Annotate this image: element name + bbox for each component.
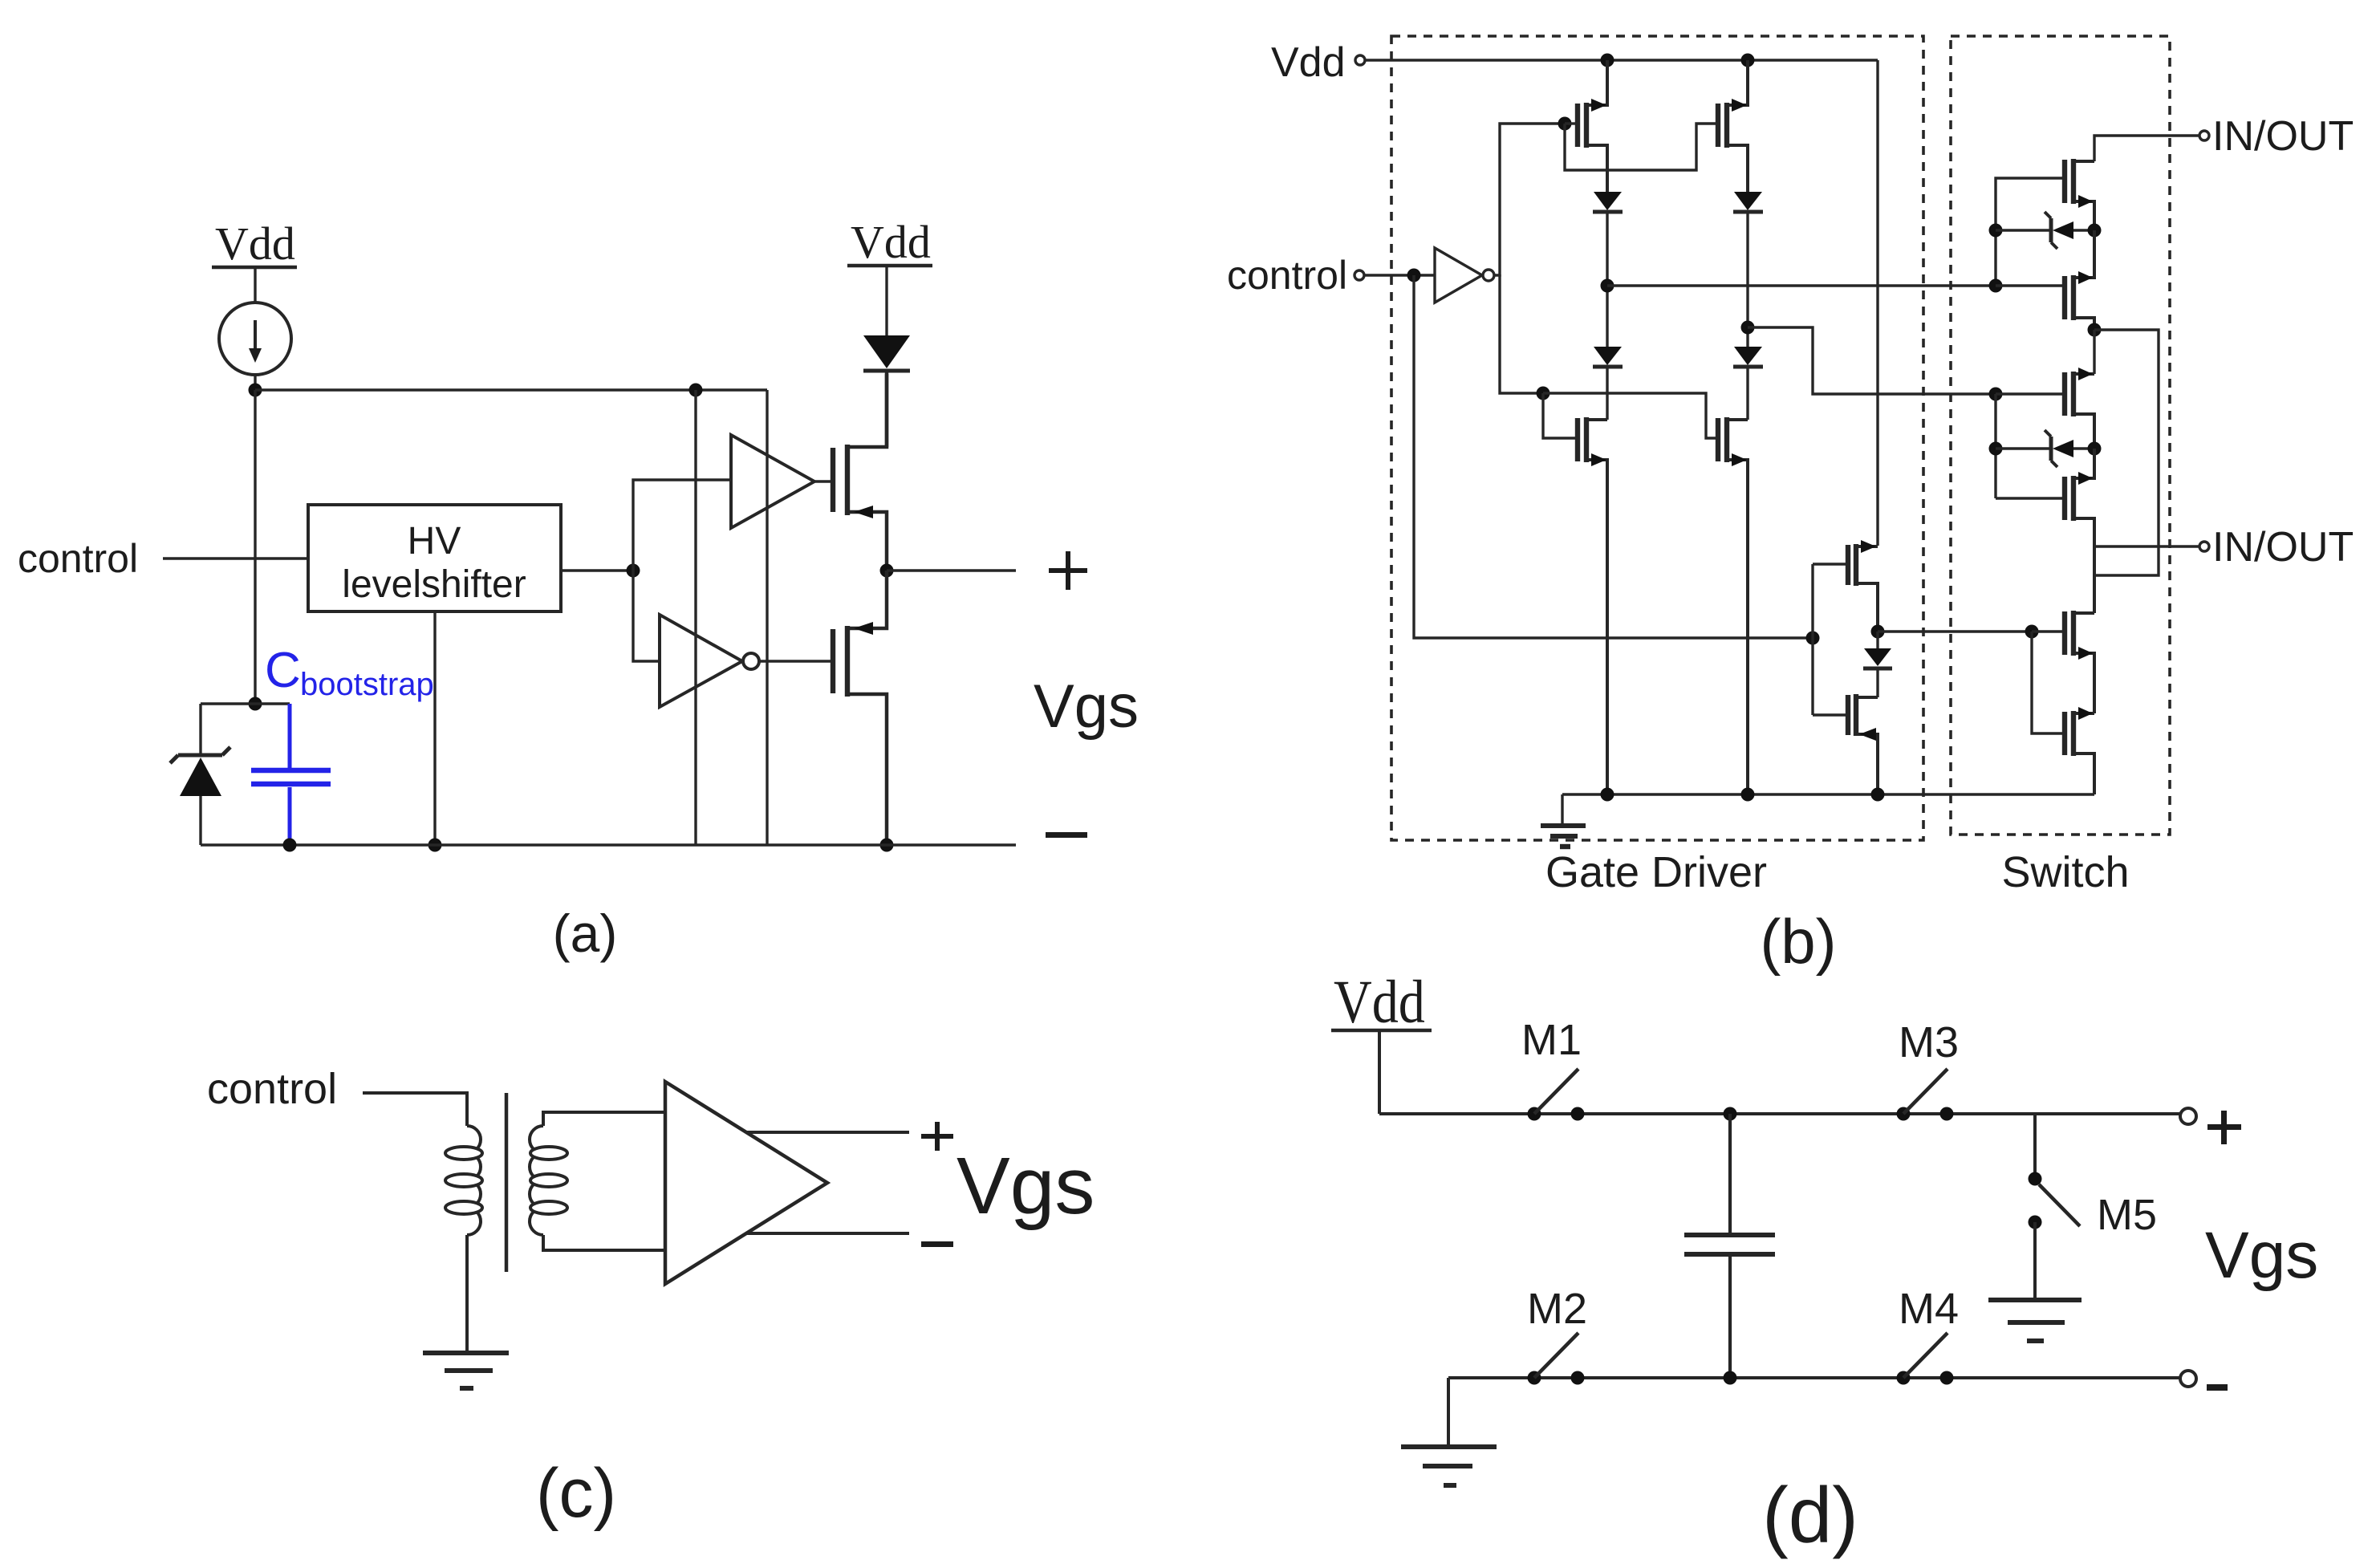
svg-text:Vdd: Vdd — [1334, 969, 1425, 1036]
wire ground rail (b) — [1562, 793, 2094, 795]
transistor N3 follower upper — [1848, 540, 1878, 632]
transistor P1 — [1578, 60, 1607, 192]
svg-text:Vgs: Vgs — [2205, 1219, 2318, 1292]
svg-text:control: control — [18, 536, 138, 581]
node rail follower — [1871, 788, 1885, 802]
wire switch bottom gate column — [2032, 632, 2065, 733]
wire follower gate column — [1813, 564, 1848, 715]
inverter A2 — [660, 615, 759, 707]
transistor P2 — [1718, 60, 1748, 192]
svg-text:M3: M3 — [1899, 1018, 1959, 1066]
wire bootstrap node down left bus — [254, 390, 256, 704]
node S3 gate row — [1989, 388, 2003, 401]
capacitor C2 (d) — [1684, 1114, 1775, 1378]
svg-text:(a): (a) — [553, 904, 618, 963]
svg-text:Gate Driver: Gate Driver — [1545, 848, 1767, 896]
current source I1 — [219, 303, 291, 375]
svg-text:M4: M4 — [1899, 1285, 1959, 1333]
plus terminal label (a) — [1049, 551, 1087, 590]
svg-text:(c): (c) — [536, 1455, 616, 1532]
HV levelshifter block U1 — [308, 505, 561, 611]
diode D4 (left column lower) — [1593, 347, 1623, 420]
node HV ground on rail — [428, 839, 442, 852]
node zener2 right — [2088, 442, 2102, 456]
wire Vgs+ output — [887, 569, 1016, 571]
wire S4 gate feed — [1996, 497, 2065, 499]
node on top wire — [689, 384, 703, 397]
svg-text:M2: M2 — [1527, 1285, 1587, 1333]
Vdd supply label (a, right) — [847, 216, 932, 268]
wire S2 gate feed — [1996, 284, 2065, 286]
wire gate-driver output 1 to switch — [1607, 284, 1996, 286]
svg-text:HV: HV — [408, 520, 461, 563]
control terminal (b) — [1355, 270, 1364, 280]
transformer primary winding L1 — [445, 1126, 482, 1235]
wire bypass loop — [2094, 330, 2159, 575]
ground symbol (c) — [423, 1353, 509, 1388]
wire bus to N2 gate — [1543, 393, 1718, 438]
wire inverter bus down — [1500, 274, 1543, 393]
wire Vdd to current source — [254, 267, 256, 303]
wire vertical supply drop to buffer / bottom rail — [766, 390, 768, 845]
node N1 gate branch — [1537, 387, 1550, 400]
IN/OUT terminal 1 — [2199, 113, 2354, 160]
node bootstrap top (junction dot) — [249, 384, 262, 397]
wire control to transformer — [363, 1093, 467, 1126]
minus terminal (d) — [2180, 1371, 2228, 1391]
node control branch — [1407, 269, 1421, 282]
ground symbol (b) — [1541, 794, 1586, 847]
IN/OUT terminal 2 — [2199, 524, 2354, 571]
node Vdd-P2 — [1741, 54, 1755, 67]
capacitor Cbootstrap (blue) — [251, 704, 331, 845]
transistor Q2 low-side MOSFET — [833, 571, 887, 845]
zener diode Z2 (switch upper) — [1996, 212, 2094, 249]
Gate Driver dashed box — [1391, 36, 1923, 840]
wire to inverter input — [633, 571, 660, 661]
wire bottom rail (d) — [1448, 1376, 2180, 1379]
transistor N2 — [1718, 417, 1748, 794]
node S2 gate row — [1989, 279, 2003, 293]
node Vgs+ output junction — [880, 564, 894, 578]
transistor S2 — [2065, 230, 2094, 330]
svg-text:Vdd: Vdd — [215, 217, 295, 270]
wire inverter output to low-side gate — [759, 660, 833, 662]
wire to buffer input — [633, 480, 731, 571]
svg-text:Vdd: Vdd — [851, 216, 931, 268]
transistor N4 follower lower — [1848, 694, 1878, 794]
wire switch mid column — [1994, 394, 1996, 498]
node Q2 source on rail — [880, 839, 894, 852]
svg-text:Vgs: Vgs — [1034, 672, 1139, 741]
transistor S5 — [2065, 611, 2094, 713]
svg-text:(b): (b) — [1760, 906, 1836, 977]
transformer core — [505, 1093, 509, 1272]
wire IN/OUT2 — [2094, 545, 2199, 547]
wire control down bus — [1414, 275, 1813, 638]
switch M1 — [1528, 1069, 1585, 1121]
wire N1 gate feed — [1543, 393, 1578, 438]
wire inverter output bus — [1494, 124, 1565, 275]
wire S3 gate feed — [1996, 392, 2065, 395]
Vdd terminal (b) — [1355, 55, 1365, 65]
node bootstrap bottom junction — [249, 697, 262, 711]
minus terminal label (a) — [1046, 832, 1087, 838]
wire Vdd drop to follower — [1876, 60, 1878, 546]
svg-text:bootstrap: bootstrap — [300, 667, 434, 702]
zener diode Z1 — [170, 704, 230, 845]
svg-text:IN/OUT: IN/OUT — [2212, 113, 2354, 160]
transistor Q1 high-side MOSFET — [833, 374, 887, 571]
node Vdd-P1 — [1601, 54, 1614, 67]
plus label (c) — [921, 1122, 953, 1151]
svg-text:Vdd: Vdd — [1271, 39, 1346, 86]
wire output minus (c) — [746, 1232, 909, 1235]
svg-text:Vgs: Vgs — [956, 1141, 1095, 1231]
wire control to inverter — [1364, 274, 1435, 276]
wire secondary bottom lead — [543, 1235, 665, 1250]
wire current source to bootstrap node — [254, 375, 256, 390]
wire S5 gate feed — [2032, 630, 2065, 632]
node PMOS gate tie — [1558, 117, 1572, 131]
wire output plus (c) — [746, 1131, 909, 1134]
transformer secondary winding L2 — [530, 1126, 567, 1235]
wire Vdd rail (b) — [1365, 59, 1878, 61]
ground symbol M2 — [1401, 1447, 1497, 1485]
svg-text:levelshifter: levelshifter — [342, 563, 526, 606]
node zener2 left — [1989, 442, 2003, 456]
zener diode Z3 (switch lower) — [1996, 430, 2094, 467]
wire IN/OUT1 to switch — [2094, 136, 2199, 161]
switch M3 — [1897, 1069, 1954, 1121]
svg-text:C: C — [265, 643, 301, 698]
minus label (c) — [921, 1241, 953, 1247]
transistor N1 — [1578, 417, 1607, 794]
svg-text:control: control — [1227, 253, 1347, 298]
node S5 gate row — [2025, 625, 2039, 639]
wire gate tie loop to P2 gate — [1565, 124, 1718, 170]
svg-text:control: control — [207, 1065, 337, 1113]
transistor S4 — [2065, 449, 2094, 613]
transistor S6 — [2065, 707, 2094, 794]
ground symbol M5 — [1988, 1300, 2082, 1341]
svg-text:IN/OUT: IN/OUT — [2212, 524, 2354, 571]
wire HV levelshifter output — [561, 569, 633, 571]
Cbootstrap value label (blue) — [265, 643, 434, 702]
wire S1 gate feed — [1996, 178, 2065, 286]
wire follower output to switch — [1878, 630, 2032, 632]
wire buffer output to high-side gate — [814, 480, 833, 482]
diode D1 (a, top right) — [863, 267, 910, 447]
svg-text:M5: M5 — [2097, 1191, 2157, 1239]
amplifier A3 — [665, 1082, 827, 1284]
node zener1 right — [2088, 224, 2102, 238]
switch M2 — [1528, 1333, 1585, 1385]
wire HV levelshifter ground return — [433, 611, 436, 845]
node capacitor bottom on rail — [283, 839, 297, 852]
buffer A1 (non-inverting driver) — [731, 435, 814, 528]
plus terminal (d) — [2180, 1108, 2241, 1144]
wire control input — [163, 557, 308, 559]
wire primary to ground — [465, 1235, 469, 1351]
Vdd supply label (d) — [1331, 969, 1432, 1036]
wire bootstrap node top horizontal — [255, 388, 767, 391]
node cap bottom — [1724, 1371, 1737, 1385]
diode D5 (right column lower) — [1733, 347, 1763, 420]
diode D3 (right column upper) — [1733, 192, 1763, 347]
node left column mid — [1601, 279, 1614, 293]
Vdd supply label (a, left) — [212, 217, 297, 270]
wire bottom rail (a) — [201, 843, 1016, 846]
switch M4 — [1897, 1333, 1954, 1385]
node rail N2 — [1741, 788, 1755, 802]
wire secondary top lead — [543, 1112, 665, 1126]
wire gate-driver output 2 to switch — [1748, 327, 1996, 394]
node cap top — [1724, 1107, 1737, 1121]
node HV output junction — [627, 564, 640, 578]
svg-text:Switch: Switch — [2001, 848, 2129, 896]
node zener1 left — [1989, 224, 2003, 238]
wire to P1 gate — [1565, 122, 1578, 124]
switch M5 — [2029, 1114, 2081, 1298]
node switch mid upper — [2088, 323, 2102, 337]
wire vertical bus from top-wire node to bottom rail — [694, 390, 697, 845]
inverter U2 (b) — [1435, 248, 1494, 303]
node right column mid — [1741, 321, 1755, 335]
wire bootstrap bottom horizontal — [201, 702, 290, 705]
Switch dashed box — [1951, 36, 2170, 835]
svg-text:(d): (d) — [1762, 1471, 1858, 1559]
node rail N1 — [1601, 788, 1614, 802]
wire top rail (d) — [1379, 1112, 2180, 1115]
diode D6 (follower) — [1863, 632, 1892, 697]
diode D2 (left column upper) — [1593, 192, 1623, 347]
wire column S2 to S3 — [2093, 330, 2095, 374]
transistor S3 — [2065, 368, 2094, 449]
wire Vdd to top rail — [1378, 1030, 1381, 1114]
node follower gate junction — [1806, 632, 1820, 645]
transistor S1 (switch top) — [2065, 159, 2094, 230]
svg-text:M1: M1 — [1521, 1016, 1582, 1064]
node follower output — [1871, 625, 1885, 639]
wire M2 to ground — [1447, 1378, 1450, 1445]
